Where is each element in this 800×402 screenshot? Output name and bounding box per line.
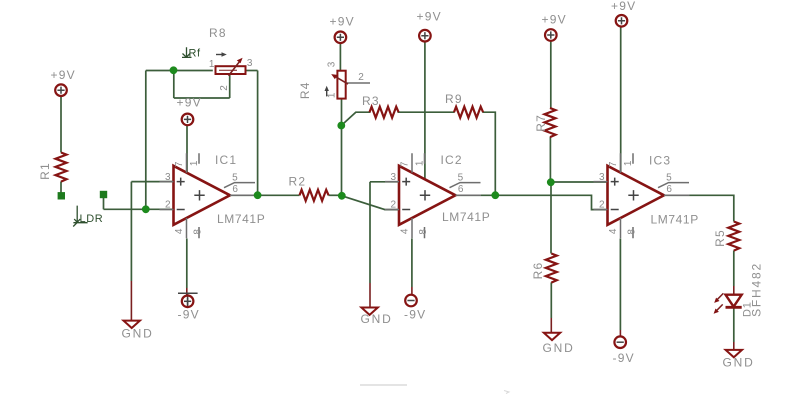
svg-text:R4: R4	[298, 81, 312, 99]
potentiometer R8 inner line	[219, 69, 237, 71]
wire IC2 node to IC3 pin2 jog	[495, 195, 607, 209]
svg-text:+9V: +9V	[51, 68, 76, 82]
wire LDR node to IC1 pin2	[104, 208, 174, 210]
potentiometer R4 body	[337, 71, 345, 99]
wire R3 to R9	[398, 111, 455, 113]
ground GND2	[361, 308, 377, 315]
artifact faint line bottom	[360, 384, 407, 386]
svg-text:1: 1	[209, 59, 215, 70]
net label LDR arrow	[73, 206, 87, 227]
supply -9V under IC3	[613, 336, 635, 365]
resistor R5	[728, 222, 739, 251]
pin GND3 maroon lead	[550, 318, 552, 333]
wire IC1 +9V to pin7	[186, 126, 188, 172]
artifact faint mark	[504, 391, 509, 394]
ground GND1	[124, 321, 140, 328]
wire IC2 +9V down	[424, 42, 426, 180]
svg-text:IC2: IC2	[441, 153, 463, 167]
op-amp IC1	[160, 153, 256, 238]
supply +9V over IC1	[182, 114, 194, 126]
wire R1 bottom lead	[60, 182, 62, 194]
potentiometer R4 wiper arrow	[336, 77, 349, 84]
wire feedback top horizontal to R8 pin1	[146, 70, 213, 72]
ground GND3	[544, 333, 560, 340]
wire diagonal node to IC2 pin2	[342, 196, 399, 210]
svg-text:IC1: IC1	[215, 153, 237, 167]
wire R5 to LED D1	[733, 251, 735, 287]
svg-text:+9V: +9V	[177, 96, 202, 110]
resistor R3	[370, 107, 399, 118]
wire R8 pin3 to feedback right	[246, 70, 258, 72]
op-amp IC3	[594, 153, 690, 238]
svg-text:LM741P: LM741P	[442, 210, 490, 224]
svg-text:3: 3	[247, 58, 253, 69]
junction node feedback top	[170, 66, 178, 74]
wire node up from R2 node to R4 node	[341, 126, 343, 196]
potentiometer R8 body	[216, 66, 246, 74]
wire feedback left vertical	[145, 71, 147, 210]
wire +9V to R7 top	[550, 41, 552, 108]
LED D1	[714, 293, 742, 313]
svg-text:R3: R3	[362, 94, 380, 108]
wire R6 bottom to GND	[550, 282, 552, 318]
wire IC3 pin4 to -9V	[619, 239, 621, 331]
wire +9V to R4 top	[339, 43, 341, 70]
wire feedback right vertical to IC1 output	[257, 71, 259, 195]
svg-text:3: 3	[327, 61, 338, 67]
node endpoint R1 bottom	[58, 192, 65, 199]
svg-text:LDR: LDR	[80, 213, 104, 225]
resistor R7	[545, 108, 556, 137]
wire IC1 output to R2	[230, 194, 300, 196]
svg-text:LM741P: LM741P	[651, 213, 699, 227]
wire node to IC3 pin3	[550, 181, 607, 183]
pin IC3 -9V maroon lead	[619, 330, 621, 336]
resistor R1	[56, 153, 67, 182]
junction node IC1 output	[254, 191, 262, 199]
svg-text:+9V: +9V	[330, 15, 355, 29]
potentiometer R4 wiper lead	[346, 82, 370, 84]
wire IC1 pin3 down to GND	[130, 182, 132, 281]
supply +9V over R7	[545, 29, 557, 41]
svg-text:IC3: IC3	[649, 154, 671, 168]
pin D1 anode maroon lead	[733, 286, 735, 295]
svg-text:-9V: -9V	[404, 308, 426, 322]
svg-text:R2: R2	[289, 175, 307, 189]
junction node IC2 output	[491, 191, 499, 199]
svg-text:+9V: +9V	[611, 0, 636, 13]
svg-text:1: 1	[327, 92, 338, 98]
op-amp IC2	[385, 153, 481, 238]
svg-text:R7: R7	[534, 114, 548, 132]
potentiometer R4 direction arrow	[326, 90, 328, 97]
supply +9V over IC3	[616, 15, 628, 27]
svg-text:-9V: -9V	[178, 308, 200, 322]
wire IC1 pin4 to -9V	[186, 239, 188, 289]
svg-text:R1: R1	[38, 162, 52, 180]
svg-text:GND: GND	[122, 327, 154, 341]
pin GND4 maroon lead	[733, 342, 735, 350]
svg-text:GND: GND	[723, 356, 755, 370]
resistor R9	[454, 107, 483, 118]
wire R8 pin2 link horizontal	[174, 97, 230, 99]
wire R2 right to node	[329, 194, 342, 196]
wire R8 pin2 lead	[229, 74, 231, 98]
svg-text:GND: GND	[543, 341, 575, 355]
wire IC2 output to node	[455, 194, 495, 196]
potentiometer R8 direction arrow	[216, 54, 224, 56]
wire R4 bottom lead	[341, 99, 343, 126]
node endpoint LDR top	[100, 191, 107, 198]
svg-text:R9: R9	[445, 92, 463, 106]
wire IC2 pin3 to left	[370, 181, 399, 183]
ground GND4	[726, 350, 742, 357]
potentiometer R8 wiper arrow	[229, 62, 240, 76]
wire D1 cathode to GND	[733, 309, 735, 343]
pin GND2 maroon lead	[369, 283, 371, 307]
wire IC2 pin4 to -9V	[411, 239, 413, 288]
junction node R2 right	[338, 192, 346, 200]
svg-text:Rf: Rf	[189, 48, 202, 60]
resistor R2	[300, 190, 329, 201]
resistor R6	[546, 254, 557, 283]
wire diagonal R4 node to R3	[341, 112, 370, 125]
supply +9V over R4	[335, 32, 347, 44]
net label Rf arrow	[182, 47, 192, 57]
wire IC3 +9V down to pin7	[620, 27, 622, 172]
supply -9V under IC2	[404, 295, 426, 322]
svg-text:2: 2	[358, 72, 364, 83]
wire IC2 pin3 down to GND	[369, 182, 371, 283]
pin GND1 maroon lead	[130, 281, 132, 320]
svg-text:-9V: -9V	[613, 351, 635, 365]
wire node down to R6	[550, 182, 552, 254]
wire R1 top lead from +9V	[60, 97, 62, 153]
junction node R4 bottom	[337, 122, 345, 130]
svg-text:GND: GND	[361, 312, 393, 326]
pin IC2 -9V maroon lead	[411, 287, 413, 294]
supply -9V under IC1	[178, 293, 200, 321]
wire LDR right stub down	[103, 198, 105, 210]
junction node R7 bottom	[547, 178, 555, 186]
svg-text:R8: R8	[209, 26, 227, 40]
wire R8 pin1-pin2 link vertical	[173, 71, 175, 99]
junction node IC1 pin2	[142, 205, 150, 213]
svg-text:LM741P: LM741P	[217, 212, 265, 226]
wire IC1 pin3 to left	[131, 181, 173, 183]
svg-text:+9V: +9V	[542, 13, 567, 27]
wire IC3 output to R5	[664, 195, 734, 221]
wire R7 bottom to node	[549, 137, 551, 180]
pin IC1 -9V maroon lead	[186, 288, 188, 295]
svg-text:R6: R6	[531, 262, 545, 280]
supply +9V over R1	[55, 84, 67, 96]
svg-text:R5: R5	[713, 229, 727, 247]
svg-text:2: 2	[219, 85, 230, 91]
wire R9 right to corner	[483, 112, 496, 194]
supply +9V over IC2	[419, 30, 431, 42]
svg-text:SFH482: SFH482	[750, 262, 764, 317]
svg-text:+9V: +9V	[417, 10, 442, 24]
